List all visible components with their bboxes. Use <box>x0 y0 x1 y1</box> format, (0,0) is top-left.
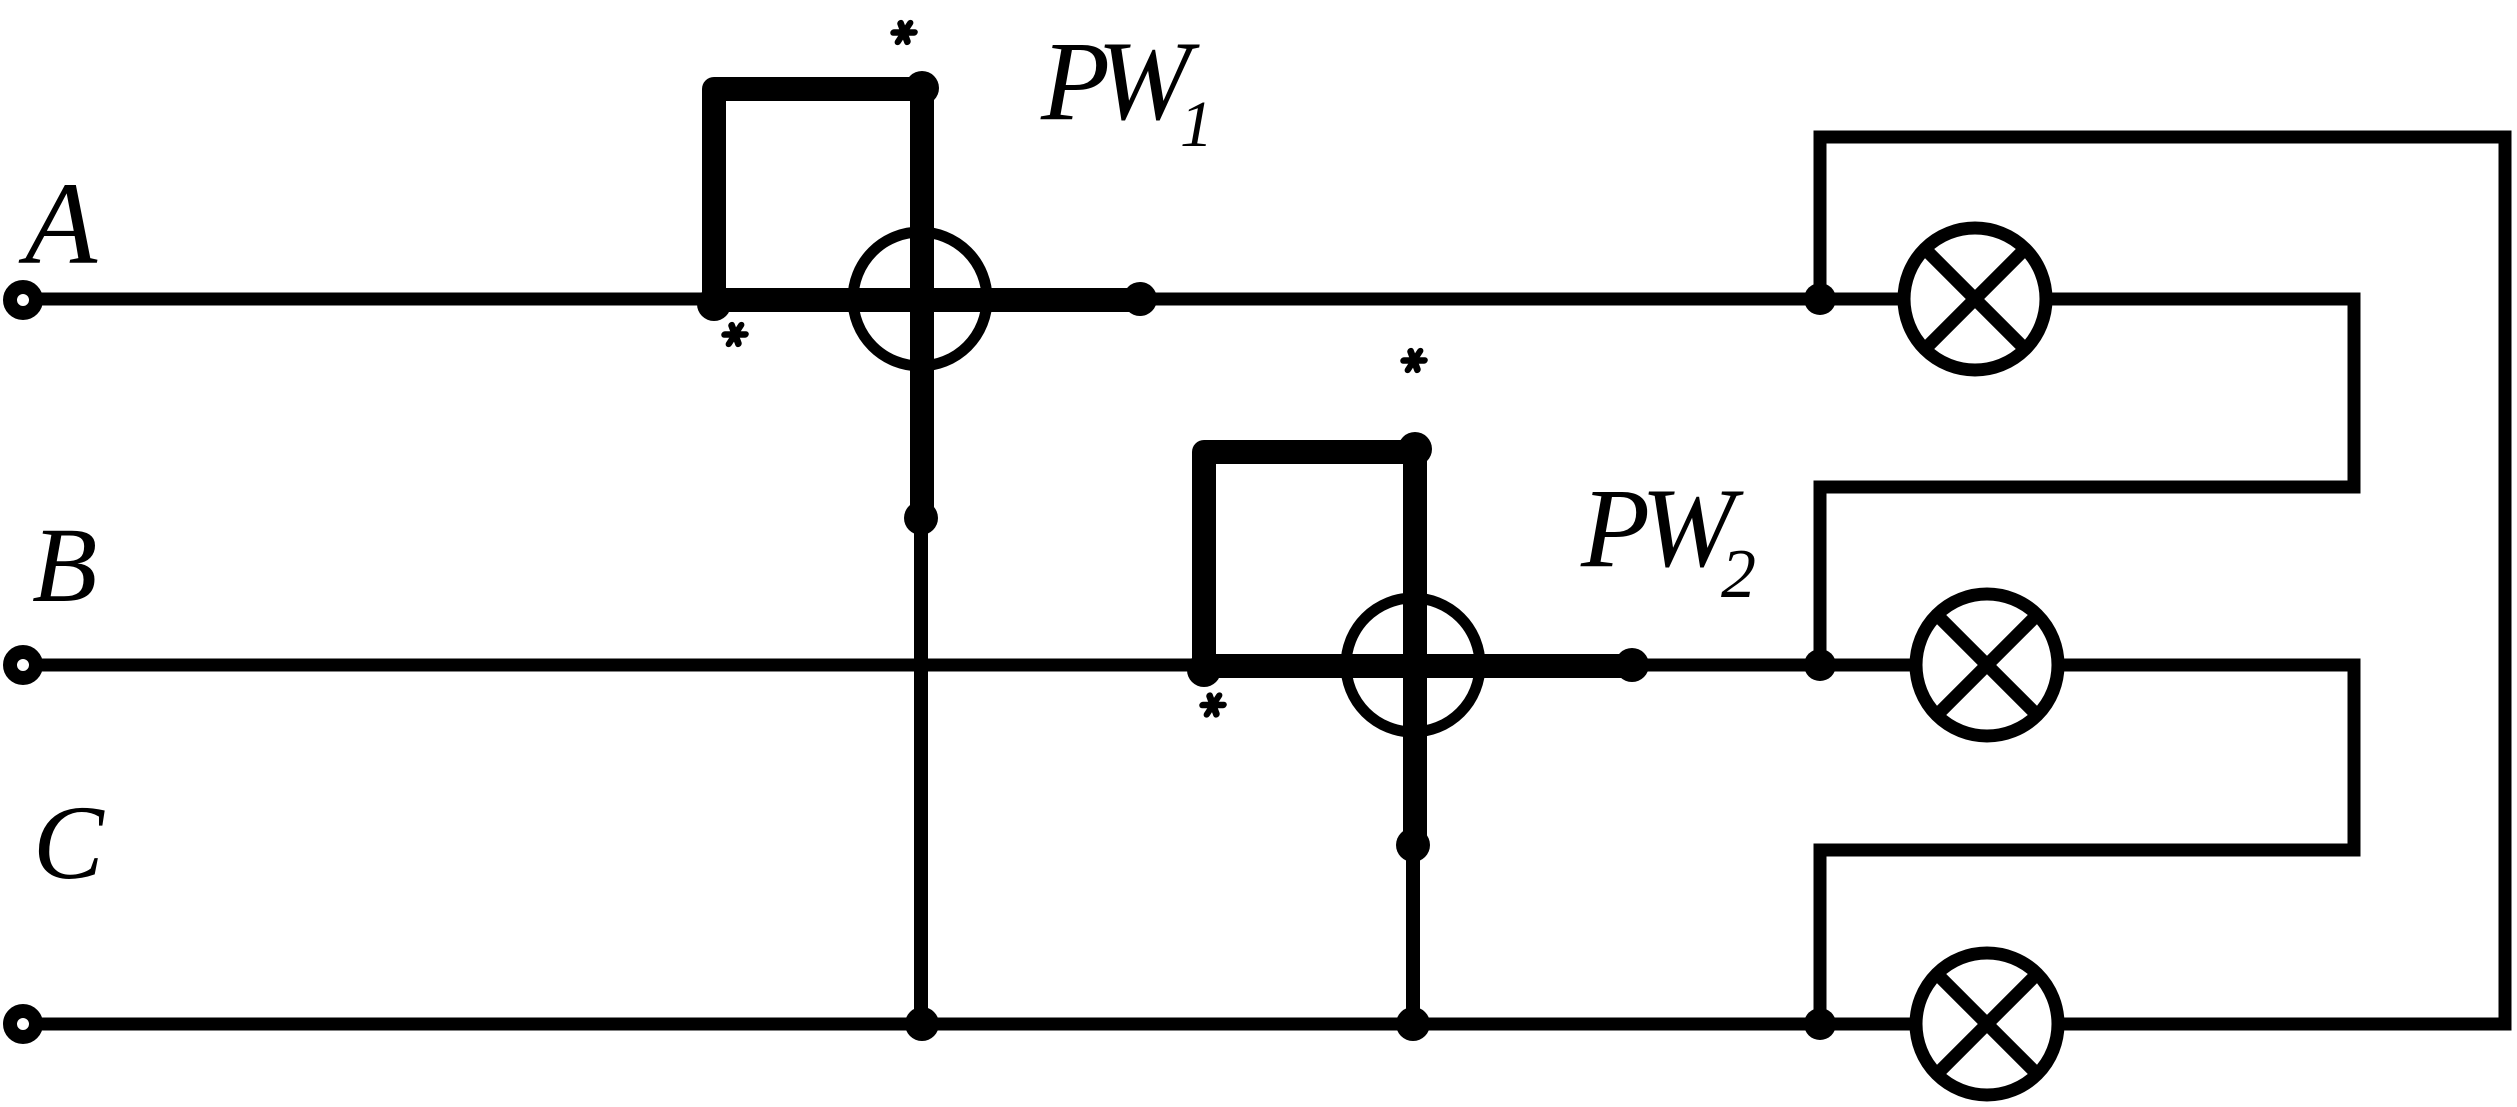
svg-text:PW: PW <box>1580 466 1744 591</box>
svg-text:A: A <box>18 158 98 289</box>
svg-text:2: 2 <box>1721 536 1756 613</box>
svg-text:PW: PW <box>1040 19 1200 144</box>
svg-text:1: 1 <box>1180 88 1213 161</box>
svg-text:C: C <box>33 784 105 901</box>
svg-text:B: B <box>32 507 97 625</box>
